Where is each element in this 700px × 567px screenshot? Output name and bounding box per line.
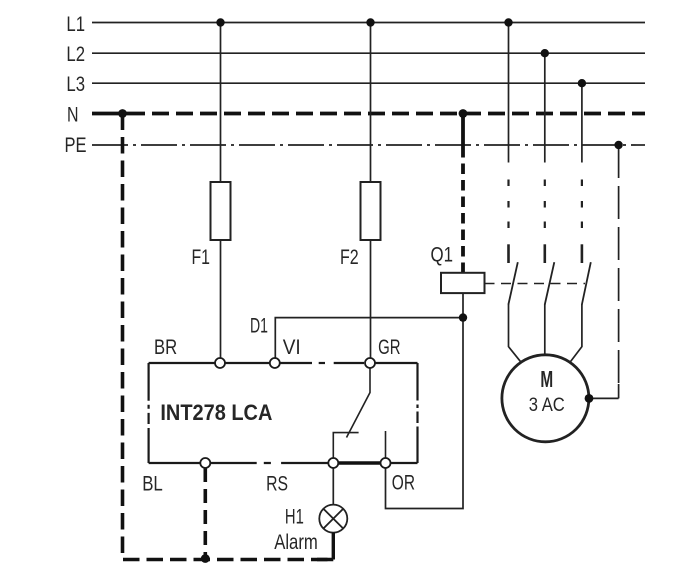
svg-text:GR: GR — [378, 336, 400, 359]
svg-text:L1: L1 — [66, 13, 85, 36]
svg-text:3 AC: 3 AC — [529, 395, 565, 416]
svg-text:PE: PE — [65, 134, 87, 157]
svg-text:Alarm: Alarm — [274, 531, 318, 554]
svg-text:OR: OR — [392, 472, 415, 495]
svg-text:BR: BR — [154, 336, 177, 359]
svg-text:Q1: Q1 — [431, 244, 454, 267]
svg-text:L3: L3 — [66, 73, 85, 96]
svg-text:RS: RS — [266, 473, 288, 496]
svg-text:F2: F2 — [340, 246, 359, 269]
svg-text:H1: H1 — [285, 505, 304, 528]
svg-text:INT278 LCA: INT278 LCA — [160, 400, 272, 425]
svg-text:VI: VI — [283, 336, 301, 359]
svg-text:M: M — [540, 366, 553, 392]
svg-text:D1: D1 — [250, 315, 268, 338]
svg-text:N: N — [67, 104, 79, 127]
svg-text:BL: BL — [142, 473, 163, 496]
svg-text:F1: F1 — [192, 246, 211, 269]
svg-text:L2: L2 — [66, 43, 85, 66]
